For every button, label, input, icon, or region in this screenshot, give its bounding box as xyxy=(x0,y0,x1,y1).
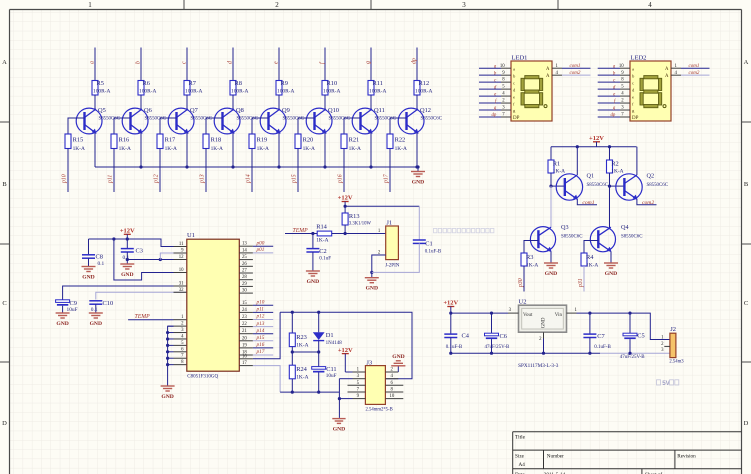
wire top rail U1 xyxy=(89,239,187,247)
svg-text:32: 32 xyxy=(179,288,184,293)
svg-text:+12V: +12V xyxy=(443,300,458,307)
svg-text:10: 10 xyxy=(390,394,395,399)
svg-text:A: A xyxy=(2,59,7,66)
svg-text:3.3K1/10W: 3.3K1/10W xyxy=(349,222,372,227)
wire xyxy=(370,95,372,110)
svg-text:A: A xyxy=(665,74,669,79)
svg-text:22: 22 xyxy=(242,322,247,327)
svg-text:26: 26 xyxy=(242,262,247,267)
svg-text:28: 28 xyxy=(242,275,247,280)
svg-text:p17: p17 xyxy=(384,173,390,184)
connector J2 xyxy=(669,326,684,364)
resistor R11 xyxy=(368,80,386,95)
svg-text:GND: GND xyxy=(392,354,404,360)
svg-text:p17: p17 xyxy=(256,349,265,355)
watermark text 2 xyxy=(657,380,679,387)
svg-text:LED2: LED2 xyxy=(631,54,647,61)
junction xyxy=(338,397,341,400)
wire +12V top rail xyxy=(551,146,637,148)
junction xyxy=(317,350,320,353)
svg-text:1K-A: 1K-A xyxy=(349,146,361,152)
svg-text:C: C xyxy=(2,300,6,307)
svg-text:GND: GND xyxy=(333,427,345,433)
svg-text:J1: J1 xyxy=(386,220,392,227)
svg-text:com2: com2 xyxy=(689,71,700,76)
svg-text:com1: com1 xyxy=(582,200,594,206)
net label TEMP xyxy=(293,228,309,234)
wire xyxy=(550,147,552,160)
svg-text:100R-A: 100R-A xyxy=(323,89,340,95)
svg-text:0.1uF-B: 0.1uF-B xyxy=(446,345,463,350)
junction xyxy=(291,311,294,314)
wire base xyxy=(68,118,85,134)
svg-text:dp: dp xyxy=(611,113,616,118)
svg-text:p14: p14 xyxy=(245,174,252,184)
svg-text:C10: C10 xyxy=(103,300,114,307)
svg-text:25: 25 xyxy=(242,255,247,260)
title block xyxy=(513,432,742,474)
wire collector Q1 xyxy=(576,147,578,175)
junction xyxy=(344,232,347,235)
net label p16 xyxy=(338,174,344,184)
resistor R15 xyxy=(65,134,85,152)
capacitor C1 xyxy=(413,240,442,255)
wire J3 pin3 xyxy=(339,378,352,380)
svg-text:Number: Number xyxy=(547,454,564,460)
junction xyxy=(185,165,188,168)
svg-text:J2: J2 xyxy=(670,326,676,333)
svg-text:30: 30 xyxy=(242,289,247,294)
wire p31 xyxy=(583,266,585,292)
svg-text:16: 16 xyxy=(242,354,247,359)
junction xyxy=(317,391,320,394)
svg-text:c: c xyxy=(513,80,515,85)
svg-text:p16: p16 xyxy=(256,342,265,348)
connector J3 xyxy=(365,359,392,412)
wire collector Q3 link xyxy=(550,186,552,227)
svg-text:R7: R7 xyxy=(189,80,197,87)
wire xyxy=(291,379,293,392)
junction xyxy=(490,352,493,355)
capacitor C6 xyxy=(485,333,510,350)
svg-text:R23: R23 xyxy=(296,334,307,341)
svg-text:p00: p00 xyxy=(256,240,265,246)
svg-text:R20: R20 xyxy=(303,137,314,144)
svg-text:15: 15 xyxy=(242,301,247,306)
wire xyxy=(318,312,320,332)
svg-text:GND: GND xyxy=(56,321,68,327)
svg-text:1: 1 xyxy=(88,1,92,9)
wire xyxy=(609,147,611,160)
wire base xyxy=(390,118,407,134)
net label com1 xyxy=(582,200,594,206)
junction xyxy=(628,312,631,315)
svg-text:A: A xyxy=(546,74,550,79)
wire xyxy=(312,252,314,267)
wire to pin header xyxy=(343,149,345,193)
wire emitter Q3 xyxy=(550,252,552,259)
svg-text:S8550C6C: S8550C6C xyxy=(191,116,212,121)
svg-text:a: a xyxy=(513,66,515,71)
wire reset top bus xyxy=(280,312,412,379)
ground xyxy=(161,382,175,401)
resistor R16 xyxy=(111,134,131,152)
net label p15 xyxy=(292,174,298,184)
capacitor C9 xyxy=(56,300,78,313)
svg-text:R24: R24 xyxy=(296,366,307,373)
svg-text:10: 10 xyxy=(179,268,184,273)
svg-text:TEMP: TEMP xyxy=(293,228,309,234)
wire base xyxy=(160,118,177,134)
wire xyxy=(126,252,128,260)
svg-text:100R-A: 100R-A xyxy=(369,89,386,95)
wire pin32 net xyxy=(96,292,187,299)
net label p30 xyxy=(518,278,524,288)
svg-text:B: B xyxy=(744,181,749,188)
svg-text:S8550C6C: S8550C6C xyxy=(283,116,304,121)
svg-text:C8051F310GQ: C8051F310GQ xyxy=(187,375,218,380)
ground bus U2 xyxy=(451,352,670,354)
svg-text:R10: R10 xyxy=(327,80,338,87)
junction xyxy=(449,352,452,355)
wire xyxy=(291,347,293,366)
wire U1 pins 2-8 ground bus xyxy=(166,326,174,381)
wire base xyxy=(114,118,131,134)
wire C1 loop xyxy=(418,206,420,240)
svg-text:10: 10 xyxy=(500,64,505,69)
svg-text:GND: GND xyxy=(161,394,173,400)
wire Vin rail xyxy=(577,313,670,339)
svg-text:2: 2 xyxy=(275,1,279,9)
svg-text:4: 4 xyxy=(648,1,652,9)
svg-text:+12V: +12V xyxy=(589,135,604,142)
svg-text:p15: p15 xyxy=(292,174,298,184)
junction xyxy=(416,165,419,168)
svg-text:R1: R1 xyxy=(553,160,560,167)
junction xyxy=(112,237,115,240)
svg-text:+12V: +12V xyxy=(120,228,135,235)
svg-text:2.54mm2*5-B: 2.54mm2*5-B xyxy=(366,407,393,412)
svg-text:p11: p11 xyxy=(256,307,265,313)
wire xyxy=(318,373,320,393)
svg-text:S8550C6C: S8550C6C xyxy=(99,116,120,121)
junction xyxy=(549,185,552,188)
wire xyxy=(324,95,326,110)
power +12V J3 xyxy=(338,347,353,372)
emitter bus wire xyxy=(95,166,418,168)
wire xyxy=(62,306,64,309)
svg-text:p11: p11 xyxy=(108,175,114,184)
wire emitter to bus xyxy=(186,133,188,167)
svg-text:p30: p30 xyxy=(518,278,524,288)
svg-text:GND: GND xyxy=(366,286,378,292)
svg-text:e: e xyxy=(274,61,280,64)
svg-text:0.1uF-B: 0.1uF-B xyxy=(594,345,611,350)
wire collector Q4 link xyxy=(609,186,611,227)
LED1 common pins xyxy=(546,64,590,79)
wire xyxy=(232,95,234,110)
svg-text:100R-A: 100R-A xyxy=(93,89,110,95)
LED display LED1 xyxy=(511,54,552,121)
net label p17 xyxy=(384,173,390,184)
svg-text:47uF/25V-B: 47uF/25V-B xyxy=(620,355,645,360)
junction xyxy=(317,311,320,314)
LED2 common pins xyxy=(665,64,709,79)
svg-text:Q8: Q8 xyxy=(236,107,244,114)
wire segment column g xyxy=(370,48,372,81)
svg-text:Q9: Q9 xyxy=(282,107,290,114)
wire emitter to bus xyxy=(94,133,96,167)
resistor R18 xyxy=(203,134,223,152)
diode D1 xyxy=(313,332,342,346)
svg-text:R9: R9 xyxy=(281,80,288,87)
capacitor C8 xyxy=(82,254,105,268)
J2 pin1 number xyxy=(661,335,664,340)
junction xyxy=(542,352,545,355)
ground xyxy=(604,259,618,278)
svg-text:S8550C6C: S8550C6C xyxy=(647,183,668,188)
resistor R4 xyxy=(581,253,598,268)
net label p13 xyxy=(200,174,206,184)
resistor R13 xyxy=(342,213,371,227)
svg-text:com1: com1 xyxy=(570,64,581,69)
svg-text:b: b xyxy=(136,61,142,64)
svg-text:e: e xyxy=(513,94,515,99)
svg-text:Q1: Q1 xyxy=(587,173,595,180)
junction xyxy=(231,165,234,168)
wire xyxy=(94,95,96,110)
wire to pin header xyxy=(205,149,207,193)
wire emitter Q4 xyxy=(610,252,612,259)
svg-text:1K-A: 1K-A xyxy=(395,146,407,152)
transistor Q2 xyxy=(616,173,668,201)
svg-text:Vin: Vin xyxy=(555,313,563,318)
junction xyxy=(126,237,129,240)
svg-text:p31: p31 xyxy=(578,278,584,288)
wire J3 pin9 xyxy=(339,398,352,400)
svg-text:1K-A: 1K-A xyxy=(119,146,131,152)
wire TEMP to R14 xyxy=(285,233,317,235)
svg-text:12: 12 xyxy=(179,255,184,260)
svg-text:Q2: Q2 xyxy=(647,173,655,180)
U1 right pins 15-18 24-20 with net labels p10-p17 xyxy=(239,300,273,356)
svg-text:U2: U2 xyxy=(519,299,527,306)
wire emitter to bus xyxy=(232,133,234,167)
J3 pins xyxy=(348,368,404,400)
resistor R19 xyxy=(249,134,269,152)
svg-text:GND: GND xyxy=(307,279,319,285)
junction xyxy=(608,185,611,188)
resistor R9 xyxy=(276,80,294,95)
svg-text:1K-A: 1K-A xyxy=(296,375,308,381)
svg-text:dp: dp xyxy=(412,58,418,64)
ground xyxy=(56,309,70,328)
svg-text:S8550C6C: S8550C6C xyxy=(375,116,396,121)
J1 pin2 xyxy=(372,251,386,273)
wire xyxy=(88,239,90,255)
svg-text:R18: R18 xyxy=(211,137,222,144)
transistor Q11 xyxy=(352,107,396,134)
wire xyxy=(629,339,631,353)
wire TEMP xyxy=(128,319,173,321)
svg-text:1K-A: 1K-A xyxy=(611,168,623,174)
net label c xyxy=(182,61,188,64)
U1 left pins 1-8 xyxy=(174,315,187,365)
wire xyxy=(186,95,188,110)
svg-text:1K-A: 1K-A xyxy=(553,168,565,174)
wire base Q1 xyxy=(551,185,565,187)
svg-text:17: 17 xyxy=(242,361,247,366)
svg-text:19: 19 xyxy=(242,343,247,348)
svg-text:Q4: Q4 xyxy=(621,224,629,231)
wire segment column f xyxy=(324,48,326,81)
svg-text:R15: R15 xyxy=(73,137,84,144)
wire p30 xyxy=(523,266,525,292)
wire C1 lower xyxy=(372,243,420,272)
svg-text:13: 13 xyxy=(242,242,247,247)
net label g xyxy=(366,61,372,64)
resistor R22 xyxy=(387,134,407,152)
U1 pin 17 wire xyxy=(239,361,280,392)
junction xyxy=(159,258,162,261)
svg-text:Q7: Q7 xyxy=(190,107,199,114)
net label com2 xyxy=(642,200,654,206)
svg-text:GND: GND xyxy=(90,321,102,327)
svg-text:DP: DP xyxy=(632,116,639,121)
svg-text:Q10: Q10 xyxy=(328,107,339,114)
svg-text:A4: A4 xyxy=(519,462,526,468)
junction xyxy=(490,312,493,315)
ground xyxy=(411,167,425,186)
resistor R2 xyxy=(607,160,624,174)
junction xyxy=(344,205,347,208)
wire xyxy=(450,313,452,334)
svg-text:R22: R22 xyxy=(395,137,406,144)
svg-text:100R-A: 100R-A xyxy=(415,89,432,95)
svg-text:c: c xyxy=(632,80,634,85)
J2 pin2 xyxy=(661,342,670,347)
capacitor C11 xyxy=(312,366,337,379)
wire emitter Q2 com2 xyxy=(637,199,657,205)
svg-text:GND: GND xyxy=(545,271,557,277)
transistor Q3 xyxy=(530,224,582,252)
svg-text:g: g xyxy=(366,61,372,64)
junction xyxy=(323,165,326,168)
wire segment column dp xyxy=(416,48,418,81)
LED2 left segment pins xyxy=(598,64,639,121)
U2 pin3 xyxy=(508,308,519,313)
svg-text:R11: R11 xyxy=(373,80,383,87)
wire emitter to bus xyxy=(324,133,326,167)
svg-text:p15: p15 xyxy=(256,335,265,341)
junction xyxy=(291,391,294,394)
svg-text:3: 3 xyxy=(462,1,466,9)
resistor R1 xyxy=(548,160,565,174)
svg-text:S8550C6C: S8550C6C xyxy=(621,234,642,239)
transistor Q1 xyxy=(556,173,608,201)
resistor R17 xyxy=(157,134,177,152)
svg-text:1N4148: 1N4148 xyxy=(326,341,343,346)
wire segment column b xyxy=(140,48,142,81)
transistor Q7 xyxy=(168,107,212,134)
wire xyxy=(278,95,280,110)
transistor Q10 xyxy=(306,107,350,134)
svg-text:10: 10 xyxy=(619,64,624,69)
wire base xyxy=(252,118,269,134)
svg-text:SPX1117M3-L-3-3: SPX1117M3-L-3-3 xyxy=(518,363,559,369)
wire xyxy=(318,341,320,367)
power +12V U1 xyxy=(120,228,135,240)
svg-text:+12V: +12V xyxy=(338,347,353,354)
middle bus xyxy=(292,351,318,353)
wire collector Q2 xyxy=(636,147,638,175)
svg-text:Q11: Q11 xyxy=(374,107,385,114)
ground J3 bottom xyxy=(332,419,345,433)
svg-text:p13: p13 xyxy=(256,321,265,327)
wire to pin header xyxy=(67,149,69,193)
svg-text:C3: C3 xyxy=(136,247,143,254)
junction xyxy=(415,165,418,168)
svg-text:0.1: 0.1 xyxy=(98,261,105,267)
net label f xyxy=(319,61,326,64)
svg-text:20: 20 xyxy=(242,336,247,341)
wire emitter to bus xyxy=(140,133,142,167)
U1 pin 16 wire xyxy=(239,312,280,359)
resistor R20 xyxy=(295,134,315,152)
svg-text:+12V: +12V xyxy=(338,195,353,202)
U2 pin2 xyxy=(539,332,543,353)
svg-text:Q5: Q5 xyxy=(98,107,106,114)
resistor R23 xyxy=(289,333,308,348)
svg-text:R4: R4 xyxy=(586,254,594,261)
wire xyxy=(491,313,493,333)
net label dp xyxy=(412,58,418,64)
J1 pin1 number xyxy=(378,229,381,234)
svg-text:14: 14 xyxy=(242,248,247,253)
wire xyxy=(88,258,90,262)
resistor R8 xyxy=(230,80,248,95)
junction xyxy=(588,352,591,355)
svg-text:Q12: Q12 xyxy=(420,107,431,114)
ground xyxy=(365,273,379,292)
svg-text:C8: C8 xyxy=(96,254,103,261)
wire xyxy=(332,233,345,235)
transistor Q4 xyxy=(590,224,642,252)
svg-text:C11: C11 xyxy=(326,366,336,373)
svg-text:C7: C7 xyxy=(597,333,605,340)
svg-text:GND: GND xyxy=(412,180,424,186)
resistor R5 xyxy=(92,80,110,95)
svg-text:100R-A: 100R-A xyxy=(277,89,294,95)
U2 pin1 xyxy=(567,308,578,313)
wire base xyxy=(298,118,315,134)
junction xyxy=(370,271,373,274)
label C4 xyxy=(462,332,470,339)
net label b xyxy=(136,61,142,64)
svg-text:LED1: LED1 xyxy=(512,54,528,61)
svg-text:100R-A: 100R-A xyxy=(185,89,202,95)
capacitor C3 xyxy=(121,247,143,260)
svg-text:A: A xyxy=(744,59,749,66)
svg-text:Title: Title xyxy=(515,435,526,441)
wire xyxy=(589,338,591,354)
junction xyxy=(311,232,314,235)
junction xyxy=(126,258,129,261)
watermark text xyxy=(434,228,494,232)
J3 pin2 ground xyxy=(391,354,405,372)
LED1 left segment pins xyxy=(479,64,520,121)
svg-text:a: a xyxy=(90,61,96,64)
